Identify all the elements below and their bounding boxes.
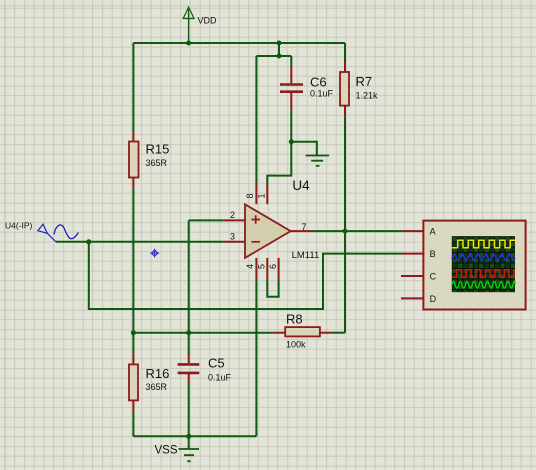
- origin marker: [150, 249, 159, 258]
- op-amp U4 (LM111) triangle: [245, 204, 291, 258]
- pin R7 top stub: [344, 62, 346, 73]
- wire top VDD rail: [133, 42, 345, 44]
- svg-text:R15: R15: [146, 141, 170, 156]
- wire R7 top feed: [344, 43, 346, 62]
- resistor R16: [129, 364, 138, 400]
- wire R16 top to dot: [132, 333, 134, 354]
- pin 2 stub: [223, 219, 245, 221]
- wire pin7 to node: [312, 230, 345, 232]
- pin C6 bottom stub: [290, 93, 292, 110]
- svg-text:R16: R16: [146, 366, 170, 381]
- trace D green sine: [452, 281, 515, 288]
- resistor R8: [285, 327, 320, 336]
- pin 4 stub: [255, 258, 257, 279]
- pin R16 top stub: [132, 354, 134, 365]
- wire R8 left to dots: [133, 332, 272, 334]
- node dot VDD tap: [186, 41, 191, 46]
- pin R7 bottom stub: [344, 106, 346, 117]
- svg-text:365R: 365R: [146, 382, 168, 392]
- pin 6 stub: [278, 258, 280, 279]
- wire node to ground: [291, 142, 317, 156]
- pin R8 left stub: [273, 332, 286, 334]
- wire y56 horizontal: [256, 55, 291, 57]
- capacitor C6: [280, 85, 303, 92]
- wire C6 top: [290, 56, 292, 65]
- wire R7 bottom long vertical: [344, 116, 346, 333]
- pin 1 stub: [266, 183, 268, 204]
- minus mark: [252, 241, 261, 243]
- pin R8 right stub: [320, 332, 333, 334]
- node dot mid y332: [186, 330, 191, 335]
- node dot input: [86, 239, 91, 244]
- pin 3 stub: [223, 241, 245, 243]
- trace B blue triangle: [452, 254, 515, 261]
- ground near C6: [306, 156, 330, 166]
- svg-text:VDD: VDD: [198, 16, 218, 26]
- pin C5 bottom stub: [188, 374, 190, 384]
- wire R15 bottom vertical: [132, 188, 134, 333]
- svg-text:8: 8: [245, 193, 255, 198]
- wire R15 top feed: [132, 43, 134, 131]
- svg-text:0.1uF: 0.1uF: [208, 373, 232, 383]
- svg-text:D: D: [430, 294, 437, 304]
- wire pin4 down: [255, 279, 257, 436]
- wire C6 bottom to node: [290, 110, 292, 141]
- wire VDD stub down: [188, 9, 190, 43]
- svg-text:365R: 365R: [146, 158, 168, 168]
- node dot top rail x279: [277, 41, 282, 46]
- terminal input flag: [38, 224, 48, 233]
- resistor R7: [340, 72, 349, 106]
- svg-text:1: 1: [256, 193, 266, 198]
- input sine squiggle: [54, 225, 79, 239]
- wire x279 down: [278, 43, 280, 56]
- pin scope A stub: [401, 230, 423, 232]
- svg-text:5: 5: [256, 264, 266, 269]
- pin scope B stub: [401, 253, 423, 255]
- wire input down-right to scope B: [89, 242, 401, 309]
- pin C5 top stub: [188, 354, 190, 364]
- wire bottom rail: [133, 435, 256, 437]
- svg-text:U4(-IP): U4(-IP): [5, 221, 33, 231]
- oscilloscope body: [423, 221, 525, 310]
- svg-text:0.1uF: 0.1uF: [310, 89, 334, 99]
- wire node to pin1: [267, 142, 291, 183]
- svg-text:100k: 100k: [286, 339, 306, 349]
- svg-text:C6: C6: [310, 74, 327, 89]
- wire C5 bottom: [188, 384, 190, 437]
- wire output to scope A: [345, 230, 401, 232]
- wire pin2 horizontal: [189, 219, 224, 221]
- wire R8 right corner: [332, 332, 345, 334]
- pin 5 stub: [266, 258, 268, 279]
- trace A yellow square: [452, 240, 515, 248]
- wire input diagonal: [47, 233, 56, 242]
- plus mark: [252, 215, 261, 223]
- power VDD: [183, 7, 194, 19]
- pin 7 stub: [291, 230, 312, 232]
- svg-text:U4: U4: [292, 178, 310, 193]
- node dot output: [343, 229, 348, 234]
- svg-text:4: 4: [245, 264, 255, 269]
- ground VSS: [179, 449, 200, 461]
- capacitor C5: [178, 364, 200, 373]
- wire pin5-pin6 loop: [267, 279, 278, 297]
- svg-text:6: 6: [268, 264, 278, 269]
- wire pin2 vertical feedback: [188, 220, 190, 332]
- svg-text:R7: R7: [356, 74, 373, 89]
- trace C red square: [452, 270, 515, 277]
- node dot y56: [277, 54, 282, 59]
- svg-text:A: A: [430, 227, 436, 237]
- node dot left y332: [131, 330, 136, 335]
- resistor R15: [129, 142, 139, 178]
- wire pin3 horizontal: [56, 241, 223, 243]
- pin C6 top stub: [290, 65, 292, 83]
- node dot C6 bottom: [289, 139, 294, 144]
- svg-text:B: B: [430, 249, 436, 259]
- wire pin8 supply vertical: [255, 56, 257, 183]
- svg-text:VSS: VSS: [155, 444, 178, 456]
- pin scope D stub: [401, 297, 423, 299]
- pin R16 bottom stub: [132, 400, 134, 411]
- svg-text:2: 2: [230, 210, 235, 220]
- svg-text:C: C: [430, 272, 437, 282]
- node dot VSS tap: [186, 434, 191, 439]
- pin 8 stub: [255, 183, 257, 204]
- wire C5 top: [188, 333, 190, 354]
- oscilloscope screen: [452, 236, 515, 292]
- wire R16 bottom: [132, 411, 134, 436]
- svg-text:R8: R8: [286, 312, 303, 327]
- pin scope C stub: [401, 275, 423, 277]
- pin R15 top stub: [132, 131, 134, 142]
- svg-text:3: 3: [230, 232, 235, 242]
- svg-text:1.21k: 1.21k: [356, 91, 379, 101]
- wire VSS stem: [188, 436, 190, 449]
- svg-text:LM111: LM111: [292, 250, 320, 261]
- pin R15 bottom stub: [132, 178, 134, 189]
- svg-text:C5: C5: [208, 356, 225, 371]
